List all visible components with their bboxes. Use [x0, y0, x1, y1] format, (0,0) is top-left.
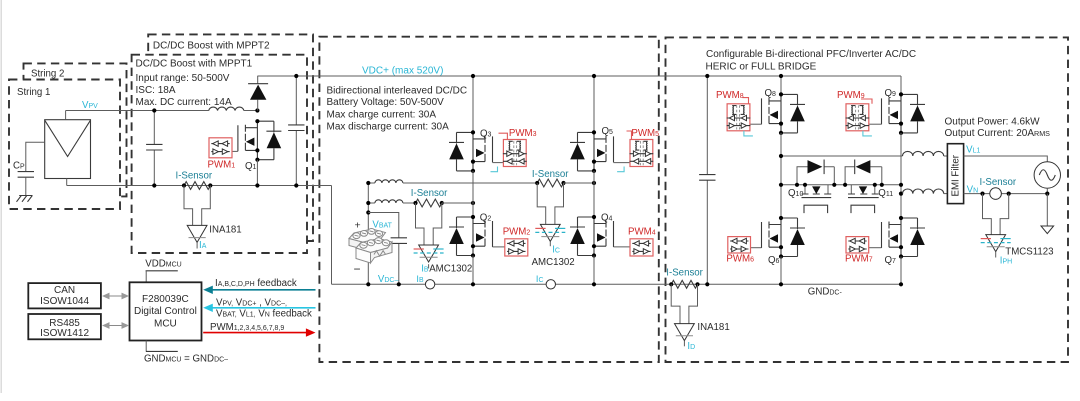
svg-text:Max charge current: 30A: Max charge current: 30A — [327, 109, 437, 120]
dashed box DC/DC Boost with MPPT2 — [148, 34, 313, 241]
svg-text:HERIC or FULL BRIDGE: HERIC or FULL BRIDGE — [706, 61, 817, 72]
gate driver PWM2 — [505, 239, 528, 256]
svg-text:I-Sensor: I-Sensor — [176, 170, 213, 181]
gate wire Q3 — [493, 162, 504, 164]
AC source — [1034, 162, 1060, 188]
svg-text:I-Sensor: I-Sensor — [411, 188, 448, 199]
current loop IC on VDC- rail — [546, 280, 555, 289]
svg-text:String 1: String 1 — [17, 87, 50, 98]
svg-text:−: − — [354, 262, 361, 276]
gate wire Q4 — [614, 246, 631, 248]
dashed box DC/DC Boost with MPPT1 (white fill, overlaps MPPT2) — [132, 55, 307, 253]
svg-text:INA181: INA181 — [209, 224, 241, 235]
wire AC source to VN — [1046, 188, 1048, 193]
wire panel top to VPV rail — [65, 111, 67, 120]
svg-text:Input range: 50-500V: Input range: 50-500V — [136, 73, 230, 84]
gate wire Q7 — [869, 247, 882, 249]
sense tap funnel A — [184, 186, 210, 226]
svg-text:PWM5: PWM5 — [631, 128, 659, 139]
feedback arrow voltages — [211, 307, 316, 309]
transistor Q8 — [762, 92, 806, 135]
wire VN line — [964, 193, 1048, 195]
wire panel left to CP — [26, 142, 45, 171]
transistor Q3 — [449, 130, 493, 173]
svg-text:AMC1302: AMC1302 — [532, 257, 575, 268]
shunt resistor I-Sensor B — [416, 199, 443, 207]
op-amp TMCS1123 — [986, 235, 1006, 252]
gate driver PWM3 — [503, 140, 527, 167]
svg-text:String 2: String 2 — [31, 69, 64, 80]
gate wire Q9 — [869, 123, 882, 125]
capacitor MPPT input — [153, 111, 155, 186]
svg-text:PWM3: PWM3 — [509, 128, 537, 139]
sense tap funnel C — [537, 183, 563, 224]
dashed box String 2 — [24, 63, 127, 196]
transistor Q10 — [805, 185, 828, 194]
sense tap funnel D — [671, 284, 697, 323]
transistor Q4 — [570, 215, 614, 258]
transistor Q11 — [851, 185, 875, 194]
op-amp AMC1302 C — [540, 224, 560, 241]
gate wire Q5 — [614, 162, 631, 164]
wire PV- to VDC- rail corner — [331, 186, 333, 285]
wire VDC+ top rail — [257, 75, 901, 77]
GND MCU overline — [146, 350, 178, 352]
EMI filter block — [947, 144, 963, 204]
sense tap funnel PH — [983, 194, 1009, 235]
gate driver PWM9 — [846, 104, 870, 131]
gate driver PWM8 — [727, 104, 751, 131]
wire leg B top — [472, 76, 474, 132]
wire phase B line to leg — [442, 202, 473, 204]
wire panel bottom to PV- rail — [66, 179, 68, 186]
svg-text:ISOW1044: ISOW1044 — [40, 296, 89, 307]
gate driver PWM7 — [846, 237, 869, 253]
inductor output bottom — [901, 193, 903, 195]
wire PV- rail — [67, 185, 332, 187]
node VPV/diode junction — [255, 108, 259, 112]
wire battery negative vertical — [367, 258, 369, 284]
svg-text:Digital Control: Digital Control — [134, 306, 197, 317]
svg-text:AMC1302: AMC1302 — [429, 264, 472, 275]
gray link arrow CAN-MCU — [108, 295, 123, 297]
svg-text:PWM2: PWM2 — [503, 227, 531, 238]
RS485 ISOW1412 box — [28, 314, 101, 339]
capacitor MPPT output — [295, 76, 297, 186]
svg-text:+: + — [355, 220, 361, 232]
boost diode D1 — [257, 76, 259, 111]
wire leg B mid — [472, 171, 474, 217]
wire VDD to MCU — [145, 271, 147, 283]
svg-text:F280039C: F280039C — [142, 294, 189, 305]
dashed box bidirectional DC/DC section — [319, 37, 658, 362]
PWM output arrow — [203, 332, 307, 334]
capacitor DC link — [706, 76, 708, 284]
inductor phase B — [368, 202, 375, 204]
op-amp INA181 D — [675, 324, 695, 341]
ground chassis CP — [17, 196, 33, 202]
battery terminal block graphic — [349, 229, 392, 264]
gate wire Q6 — [751, 247, 762, 249]
shunt resistor I-Sensor D — [671, 280, 698, 288]
svg-text:ISOW1412: ISOW1412 — [40, 328, 89, 339]
svg-text:TMCS1123: TMCS1123 — [1005, 247, 1053, 258]
capacitor battery side — [391, 238, 407, 244]
gray link arrow RS485-MCU — [108, 325, 123, 327]
wire battery positive vertical — [367, 183, 369, 232]
wire cap tap — [368, 213, 399, 285]
transistor Q1 — [238, 119, 282, 162]
wire leg R mid — [900, 133, 902, 218]
svg-text:CAN: CAN — [54, 285, 75, 296]
svg-text:PWM8: PWM8 — [716, 90, 744, 101]
dashed box PFC/inverter section — [666, 37, 1069, 362]
MCU box F280039C — [130, 282, 202, 340]
HERIC diode right loop — [845, 167, 882, 185]
PV panel — [45, 120, 91, 179]
wire to AC ground — [1046, 194, 1048, 226]
svg-text:Output Current: 20ARMS: Output Current: 20ARMS — [945, 128, 1051, 139]
current loop IB on VDC- rail — [425, 280, 434, 289]
left screen edge artifact — [1, 0, 2, 393]
wire leg L mid — [780, 133, 782, 218]
svg-text:ISC: 18A: ISC: 18A — [136, 85, 176, 96]
wire phase B line — [403, 202, 416, 204]
wire leg R top — [900, 76, 902, 94]
svg-text:Configurable Bi-directional PF: Configurable Bi-directional PFC/Inverter… — [706, 49, 916, 60]
inductor boost — [209, 107, 244, 110]
wire leg C top — [593, 76, 595, 132]
wire leg C bottom — [593, 256, 595, 285]
feedback arrow currents — [211, 289, 316, 291]
svg-text:PWM6: PWM6 — [726, 254, 754, 265]
svg-text:DC/DC Boost with MPPT1: DC/DC Boost with MPPT1 — [136, 58, 253, 69]
wire leg L top — [780, 76, 782, 94]
svg-text:I-Sensor: I-Sensor — [532, 169, 569, 180]
wire phase C line — [403, 182, 537, 184]
transistor Q2 — [449, 215, 493, 258]
svg-text:I-Sensor: I-Sensor — [980, 177, 1017, 188]
svg-text:PWM7: PWM7 — [845, 254, 873, 265]
wire leg C mid — [593, 171, 595, 217]
dashed box String 1 (white fill, overlaps String 2) — [9, 80, 120, 210]
gate driver PWM1 — [232, 150, 238, 152]
wire VDC- bottom rail — [332, 283, 902, 285]
svg-text:Max discharge current: 30A: Max discharge current: 30A — [327, 121, 450, 132]
svg-text:INA181: INA181 — [697, 322, 729, 333]
gate driver PWM5 — [630, 140, 654, 167]
gate wire Q8 — [750, 123, 762, 125]
op-amp AMC1302 B — [419, 245, 439, 262]
svg-text:Output Power: 4.6kW: Output Power: 4.6kW — [945, 116, 1041, 127]
op-amp INA181 A — [187, 225, 207, 242]
svg-text:MCU: MCU — [154, 318, 177, 329]
shunt resistor I-Sensor A — [184, 182, 211, 190]
transistor Q9 — [882, 92, 926, 135]
inductor phase C — [368, 182, 375, 184]
transistor Q7 — [882, 216, 926, 259]
svg-text:Battery Voltage: 50V-500V: Battery Voltage: 50V-500V — [327, 97, 445, 108]
gate driver PWM4 — [630, 239, 653, 256]
ground AC — [1041, 226, 1054, 234]
transistor Q5 — [570, 130, 614, 173]
wire VL1 to AC source — [964, 156, 1048, 162]
gate wire Q2 — [493, 246, 505, 248]
wire MCU to GND — [145, 341, 147, 352]
sense tap funnel B — [416, 203, 442, 245]
svg-text:Bidirectional interleaved DC/D: Bidirectional interleaved DC/DC — [327, 85, 468, 96]
svg-text:PWM1: PWM1 — [208, 159, 236, 170]
node battery cap tap — [366, 210, 370, 214]
wire leg L bottom — [780, 257, 782, 285]
svg-text:EMI Filter: EMI Filter — [951, 154, 962, 196]
svg-text:PWM9: PWM9 — [837, 90, 865, 101]
inductor output top — [903, 151, 944, 156]
HERIC diode left loop — [797, 167, 834, 185]
svg-text:DC/DC Boost with MPPT2: DC/DC Boost with MPPT2 — [153, 41, 270, 52]
wire Q1 source to PV- rail — [256, 160, 258, 186]
svg-text:PWM4: PWM4 — [628, 227, 656, 238]
shunt resistor I-Sensor C — [537, 179, 564, 187]
wire leg B bottom — [472, 256, 474, 285]
wire HERIC lower line — [781, 184, 901, 186]
wire HERIC top output line — [781, 155, 903, 157]
gate driver PWM6 — [728, 237, 751, 253]
svg-text:VDC+ (max 520V): VDC+ (max 520V) — [362, 65, 443, 76]
svg-text:Max. DC current: 14A: Max. DC current: 14A — [136, 97, 232, 108]
wire CP to ground — [25, 177, 27, 195]
wire leg R bottom — [900, 257, 902, 285]
current loop on VN wire — [990, 188, 1002, 200]
wire VPV rail — [66, 110, 209, 112]
svg-text:I-Sensor: I-Sensor — [666, 268, 703, 279]
wire phase C line to leg — [564, 182, 595, 184]
transistor Q6 — [762, 216, 806, 259]
CAN ISOW1044 box — [28, 283, 101, 308]
